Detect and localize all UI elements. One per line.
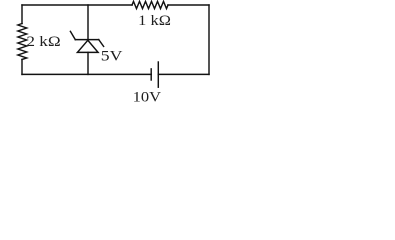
svg-text:10V: 10V (133, 90, 162, 106)
zener diode D1 right wing (99, 40, 104, 47)
resistor R1 2kOhm zigzag (left) (18, 24, 27, 60)
battery V1 long plate (157, 62, 159, 87)
wire left lower segment (21, 60, 23, 75)
wire middle upper segment (87, 5, 89, 40)
wire top-left segment (22, 4, 132, 6)
zener diode D1 anode triangle (77, 40, 98, 52)
resistor R2 1kOhm zigzag (top) (132, 1, 168, 8)
wire top-right segment (168, 4, 209, 6)
wire right side (208, 5, 210, 74)
zener diode D1 cathode bar (75, 39, 98, 41)
wire bottom-right segment (158, 73, 209, 75)
zener diode D1 left wing (70, 31, 75, 39)
svg-text:2 kΩ: 2 kΩ (26, 34, 60, 50)
svg-text:5V: 5V (101, 48, 124, 64)
wire middle lower segment (87, 52, 89, 74)
wire left upper segment (21, 5, 23, 24)
battery V1 short plate (150, 69, 152, 80)
wire bottom-left segment (22, 73, 151, 75)
svg-text:1 kΩ: 1 kΩ (138, 13, 171, 29)
